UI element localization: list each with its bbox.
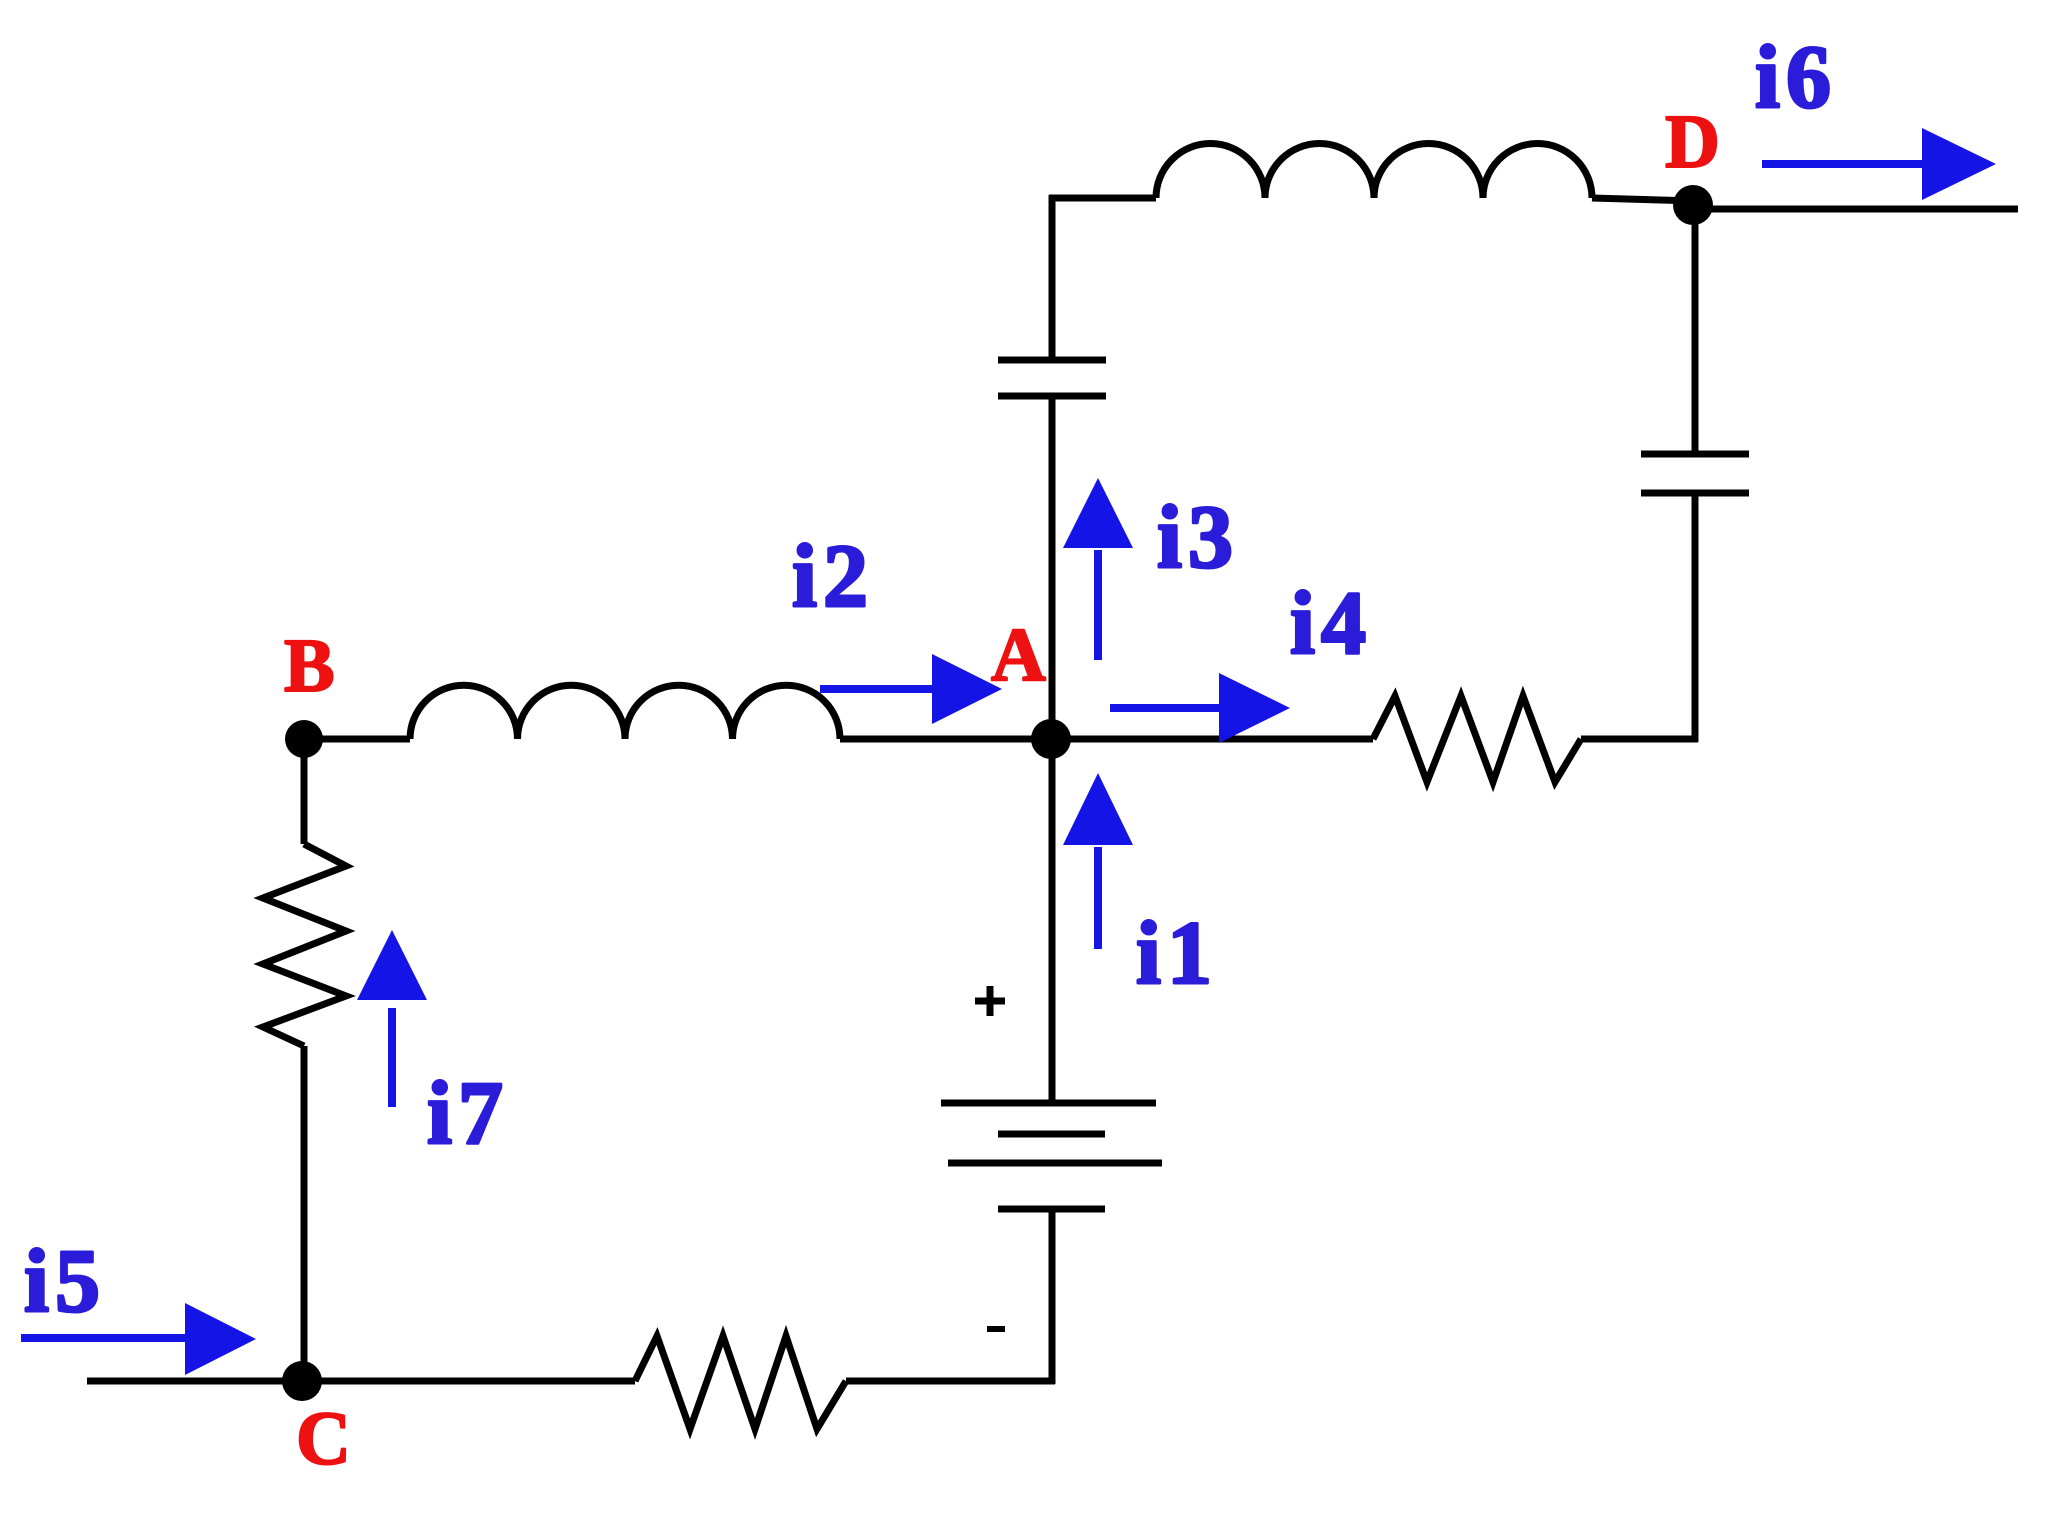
wire capacitor to node D xyxy=(1692,205,1699,454)
current arrow i1 xyxy=(1063,773,1133,949)
wire resistor down to node C xyxy=(301,1046,308,1381)
battery plate 2 short xyxy=(998,1131,1105,1138)
svg-text:i5: i5 xyxy=(24,1232,106,1331)
wire right corner up to capacitor xyxy=(1692,493,1699,742)
wire node D to right edge xyxy=(1693,206,2018,213)
svg-text:i1: i1 xyxy=(1136,904,1218,1003)
inductor B-A xyxy=(410,685,840,739)
wire node B down to resistor xyxy=(301,739,308,844)
svg-text:B: B xyxy=(284,624,335,708)
svg-text:A: A xyxy=(991,613,1046,697)
node D junction dot xyxy=(1673,185,1713,225)
svg-text:C: C xyxy=(296,1397,351,1481)
capacitor top-middle, bottom plate xyxy=(998,393,1106,400)
current arrow i6 xyxy=(1762,128,1996,200)
wire capacitor to node A xyxy=(1049,396,1056,739)
wire node C to left edge xyxy=(87,1378,302,1385)
resistor bottom xyxy=(635,1336,846,1429)
wire resistor to node C xyxy=(302,1378,635,1385)
node B junction dot xyxy=(285,720,323,758)
current arrow i3 xyxy=(1063,478,1133,660)
wire node A down to battery xyxy=(1049,739,1056,1103)
wire top corner down to capacitor xyxy=(1049,195,1056,360)
resistor A to right corner xyxy=(1373,696,1581,782)
wire battery down to bottom corner xyxy=(1049,1209,1056,1384)
svg-text:i2: i2 xyxy=(792,527,874,626)
current arrow i5 xyxy=(21,1303,256,1375)
svg-text:D: D xyxy=(1665,100,1720,184)
wire B to inductor xyxy=(304,736,410,743)
node A junction dot xyxy=(1031,719,1071,759)
svg-text:i7: i7 xyxy=(427,1064,509,1163)
current arrow i7 xyxy=(357,930,427,1107)
capacitor top-middle, top plate xyxy=(998,357,1106,364)
capacitor right, top plate xyxy=(1641,451,1749,458)
capacitor right, bottom plate xyxy=(1641,490,1749,497)
node C junction dot xyxy=(282,1361,322,1401)
battery plate 4 short xyxy=(998,1206,1105,1213)
battery plus polarity label xyxy=(975,986,1005,1016)
svg-text:i4: i4 xyxy=(1290,574,1372,673)
svg-text:i3: i3 xyxy=(1157,488,1239,587)
wire resistor to right corner xyxy=(1581,736,1698,743)
battery minus polarity label xyxy=(987,1326,1005,1332)
battery plate 3 long xyxy=(948,1160,1162,1167)
wire top corner to inductor xyxy=(1049,195,1156,202)
wire top inductor to node D xyxy=(1592,198,1696,201)
current arrow i4 xyxy=(1110,673,1290,743)
current arrow i2 xyxy=(820,654,1002,724)
resistor B-C vertical xyxy=(263,844,346,1046)
wire inductor to node A xyxy=(840,736,1373,743)
inductor top xyxy=(1156,143,1592,198)
wire bottom corner to resistor xyxy=(846,1378,1055,1385)
svg-text:i6: i6 xyxy=(1755,28,1837,127)
battery plate 1 long xyxy=(941,1100,1156,1107)
